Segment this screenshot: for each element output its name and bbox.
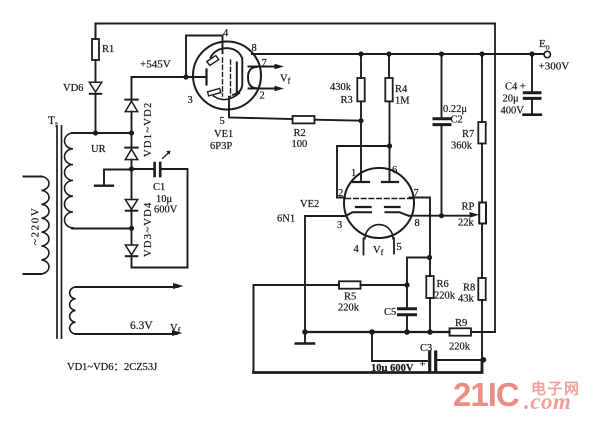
potentiometer RP <box>458 202 486 229</box>
node bus/R3 <box>358 51 363 56</box>
wire R8 to C3 node <box>481 300 483 360</box>
resistor R1 <box>92 39 114 60</box>
svg-text:+300V: +300V <box>539 61 570 73</box>
node bus/R4 <box>386 51 391 56</box>
label VE1 6P3P <box>210 129 233 152</box>
svg-text:360k: 360k <box>451 141 473 152</box>
svg-text:+: + <box>420 359 426 371</box>
svg-text:R8: R8 <box>463 283 475 294</box>
svg-text:C5: C5 <box>384 307 396 318</box>
wire UR top lead <box>72 132 132 134</box>
VE1 grid feed bar pin3 <box>194 70 207 85</box>
wire VD6 to node <box>95 94 97 133</box>
VE1 beam plate top <box>207 56 219 66</box>
wire R5 left loop <box>254 285 340 373</box>
svg-text:8: 8 <box>415 218 420 229</box>
svg-text:5: 5 <box>220 116 225 127</box>
VE2 heater pin4 stub <box>363 238 365 254</box>
svg-text:R3: R3 <box>341 95 353 106</box>
wire C1 right then down <box>162 169 188 268</box>
terminal Eo <box>539 38 570 73</box>
ground <box>95 184 113 186</box>
resistor R3 <box>330 54 365 106</box>
resistor R7 <box>451 54 486 152</box>
node ground junction <box>302 329 308 335</box>
svg-text:R6: R6 <box>437 279 449 290</box>
svg-text:VE2: VE2 <box>300 199 319 210</box>
VE2 cathode right <box>386 212 409 216</box>
node R8/C3/loop junction <box>481 357 487 363</box>
VE2 grid dashed line <box>346 198 412 200</box>
wire R1 to VD6 <box>95 60 97 82</box>
node junction VD6/UR-top <box>93 130 98 135</box>
wire C3 branch <box>372 332 427 361</box>
VE1 cathode pin5 lead <box>229 97 293 119</box>
svg-text:R1: R1 <box>102 44 114 55</box>
wire top B+ rail <box>96 24 496 40</box>
svg-text:+545V: +545V <box>140 59 171 71</box>
svg-text:1: 1 <box>351 168 356 179</box>
svg-text:VD1~VD2: VD1~VD2 <box>143 101 154 157</box>
svg-text:6P3P: 6P3P <box>210 141 232 152</box>
svg-text:10μ: 10μ <box>156 194 173 205</box>
wire VD1 to node <box>131 112 133 133</box>
resistor R8 <box>458 278 486 305</box>
svg-text:R5: R5 <box>344 292 356 303</box>
wire RP to R8 <box>481 224 483 279</box>
node pin7/R6 junction <box>427 255 432 260</box>
node R2/R3 junction <box>358 118 363 123</box>
svg-text:C1: C1 <box>153 182 165 193</box>
node bus/C4 <box>529 51 534 56</box>
svg-text:3: 3 <box>337 220 342 231</box>
transformer Tr core <box>48 115 62 338</box>
watermark 21IC logo <box>453 376 581 414</box>
wire grid link to VE2 pin2 <box>337 146 390 198</box>
node C2/pin8 wire <box>439 213 444 218</box>
wire to ground <box>104 170 132 186</box>
capacitor C3 <box>420 343 436 371</box>
svg-text:3: 3 <box>188 95 193 106</box>
svg-text:10μ 600V: 10μ 600V <box>371 363 414 374</box>
diode VD6 <box>63 82 102 94</box>
svg-text:400V: 400V <box>501 106 525 117</box>
wire R4 to VE2 anode2 <box>389 101 391 182</box>
resistor R2 <box>292 116 315 150</box>
wire VE2 pin3 to ground bus <box>305 216 345 332</box>
winding 6.3V <box>70 287 154 334</box>
wire R3 to VE2 anode1 <box>360 101 362 182</box>
svg-text:6: 6 <box>392 165 397 176</box>
diode chain top lead and +545V rail <box>132 77 206 100</box>
node C5 bus junction <box>404 329 410 335</box>
wire UR bottom lead <box>72 228 132 230</box>
svg-text:220k: 220k <box>338 303 360 314</box>
svg-text:4: 4 <box>354 244 360 255</box>
VE2 grid bar right <box>385 206 400 208</box>
wire VE2 pin8 to RP arrow <box>410 212 480 218</box>
node junction VD3/UR-bottom <box>129 226 134 231</box>
diode VD4 <box>125 228 137 256</box>
VE1 grid1 dashed pin4 <box>222 58 224 96</box>
node R6 bus junction <box>427 329 433 335</box>
capacitor C5 <box>384 285 416 332</box>
svg-text:VD6: VD6 <box>63 83 83 94</box>
VE2 cathode left <box>346 212 371 216</box>
wire R2 to R3 node <box>315 120 362 121</box>
capacitor C4 <box>501 54 541 117</box>
VE1 heater pin2 arrow <box>249 86 285 92</box>
svg-text:2: 2 <box>338 188 343 199</box>
wire 6.3V top lead with arrow <box>76 283 184 289</box>
svg-text:C2: C2 <box>451 115 463 126</box>
svg-text:1M: 1M <box>395 96 410 107</box>
svg-text:43k: 43k <box>458 294 475 305</box>
capacitor C1 <box>153 151 178 216</box>
wire +545V to VE1 pin4 <box>186 36 223 78</box>
VE2 anode bar left <box>353 181 369 183</box>
svg-text:VE1: VE1 <box>214 129 233 140</box>
tube VE2 envelope <box>344 168 414 238</box>
VE1 beam plate bottom <box>208 89 221 96</box>
wire main B+ bus <box>252 53 544 55</box>
VE2 anode bar right <box>382 181 398 183</box>
diode VD3 <box>125 200 137 211</box>
wire 6.3V bottom lead with arrow <box>76 330 183 336</box>
svg-text:C3: C3 <box>420 343 432 354</box>
node junction VD2/C1/ground <box>129 166 134 171</box>
resistor R5 <box>338 281 361 313</box>
svg-text:Vf: Vf <box>280 74 291 86</box>
VE1 grid2 dashed <box>230 60 232 97</box>
wire VD4 bottom to C1 loop corner <box>132 256 188 267</box>
svg-text:430k: 430k <box>330 82 352 93</box>
resistor R6 <box>426 258 455 333</box>
svg-text:R7: R7 <box>462 129 474 140</box>
svg-text:VD3~VD4: VD3~VD4 <box>143 201 154 257</box>
node C3 branch junction <box>369 329 375 335</box>
svg-text:5: 5 <box>397 242 402 253</box>
wire ground bus <box>305 331 450 333</box>
wire R5 to C5 node <box>361 284 408 286</box>
wire bottom loop <box>254 360 483 373</box>
svg-text:8: 8 <box>252 43 257 54</box>
svg-text:22k: 22k <box>458 218 475 229</box>
svg-text:Vf: Vf <box>170 323 181 335</box>
wire R7 to RP <box>481 144 483 203</box>
node +545V junction <box>183 74 188 79</box>
VE1 heater bracket <box>248 67 257 88</box>
winding secondary UR <box>64 133 105 228</box>
svg-text:6.3V: 6.3V <box>130 320 153 332</box>
svg-text:21IC: 21IC <box>453 376 519 413</box>
VE1 pin number labels <box>188 28 267 127</box>
svg-text:2: 2 <box>260 91 265 102</box>
winding primary ~220V <box>24 177 49 275</box>
VE1 anode hook <box>211 48 243 95</box>
node R4/grid link junction <box>387 143 392 148</box>
svg-text:R2: R2 <box>294 128 306 139</box>
svg-text:0.22μ: 0.22μ <box>443 104 467 115</box>
wire C5 node up and over to R6 line <box>407 258 430 286</box>
wire VD3 to node <box>131 211 133 229</box>
VE2 grid bar left <box>356 206 371 208</box>
svg-text:100: 100 <box>292 139 308 150</box>
resistor R9 <box>449 318 471 353</box>
VE2 heater pin5 stub <box>393 238 395 253</box>
svg-text:220k: 220k <box>449 342 471 353</box>
svg-text:4: 4 <box>223 28 229 39</box>
node junction VD1/VD2 midpoint <box>129 130 134 135</box>
wire node to C1 <box>132 168 153 170</box>
svg-text:Vf: Vf <box>373 245 384 257</box>
svg-text:220k: 220k <box>434 291 456 302</box>
svg-text:R9: R9 <box>455 318 467 329</box>
VE1 heater pin7 arrow <box>249 64 285 70</box>
node bus/C2 <box>439 51 444 56</box>
wire R9 to feedback line <box>471 331 495 333</box>
svg-text:RP: RP <box>462 202 475 213</box>
svg-text:R4: R4 <box>395 84 408 95</box>
svg-text:600V: 600V <box>154 205 178 216</box>
svg-text:Tr: Tr <box>48 115 58 129</box>
svg-text:Eo: Eo <box>539 38 550 52</box>
diode VD1 <box>125 100 137 112</box>
capacitor C2 <box>434 54 467 216</box>
svg-text:6N1: 6N1 <box>277 214 295 225</box>
svg-text:~220V: ~220V <box>30 207 42 245</box>
VE2 pin number labels <box>337 165 420 255</box>
wire right feedback line <box>494 24 496 333</box>
svg-text:C4 +: C4 + <box>505 82 526 93</box>
svg-text:VD1~VD6：2CZ53J: VD1~VD6：2CZ53J <box>67 362 157 373</box>
diode VD2 <box>125 133 137 169</box>
wire VE2 pin7 down to R6 <box>410 198 431 258</box>
wire C3 to R8 node <box>438 359 484 361</box>
svg-text:UR: UR <box>91 144 106 155</box>
svg-text:.com: .com <box>524 389 571 414</box>
VE2 heater arc <box>365 225 393 239</box>
resistor R4 <box>385 54 410 107</box>
svg-text:7: 7 <box>262 58 267 69</box>
VE1 cathode bar <box>236 63 238 94</box>
node R5/C5 junction <box>404 282 409 287</box>
node bus/R7 <box>479 51 484 56</box>
ground symbol bottom <box>296 332 314 344</box>
svg-text:20μ: 20μ <box>503 94 520 105</box>
wire VD2 node to VD3 <box>131 169 133 199</box>
VE1 bottom arc <box>214 93 240 100</box>
tube VE1 envelope <box>193 42 261 110</box>
